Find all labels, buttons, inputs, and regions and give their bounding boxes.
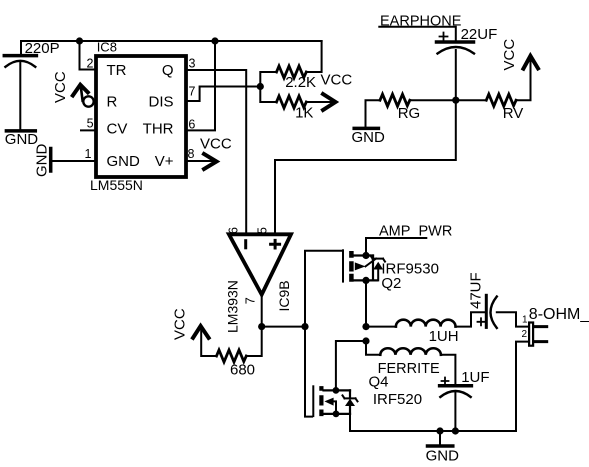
wire node down to FERRITE [366,341,380,355]
svg-text:1K: 1K [295,105,313,122]
connector J1 8-OHM speaker [521,306,589,346]
resistor R2 1K [277,96,314,122]
svg-text:220P: 220P [25,40,60,57]
pin 2 TR label [87,57,127,80]
net label EARPHONE [379,14,461,42]
node junction dot on rail (cap tap) [76,37,83,44]
node junction dot Q4 drain stub [333,387,340,394]
wire earphone node down and to comparator plus input [275,100,456,233]
svg-text:Q: Q [162,62,174,79]
resistor R3 680 [217,350,256,378]
svg-text:VCC: VCC [52,71,69,103]
wire rail down to THR pin 6 [187,41,215,130]
svg-text:CV: CV [107,121,128,138]
svg-text:5: 5 [87,117,94,131]
svg-text:AMP_PWR: AMP_PWR [379,224,452,240]
pin 1 GND label [52,147,140,170]
wire node to Q4 drain [336,341,366,390]
wire DIS pin7 to resistor junction [187,87,260,102]
svg-text:3: 3 [189,57,196,71]
svg-text:2.2K: 2.2K [285,74,316,91]
svg-text:7: 7 [189,85,196,99]
svg-text:VCC: VCC [172,308,189,340]
svg-text:7: 7 [244,297,258,304]
node junction dot 1UF tap [452,427,459,434]
op-amp U2 LM393N IC9B [224,227,292,333]
wire node to RV [456,99,487,101]
svg-text:6: 6 [188,117,195,131]
svg-text:VCC: VCC [321,72,353,89]
node junction dot GND tap [436,427,443,434]
sideways ground at pin 1 [34,144,51,178]
svg-text:LM393N: LM393N [224,280,240,333]
pin 8 V+ label [155,147,195,170]
svg-text:Q2: Q2 [381,275,401,292]
svg-text:1UF: 1UF [461,369,489,386]
wire Q2 source down to inductor node [365,280,367,326]
svg-text:6: 6 [227,227,241,234]
svg-text:GND: GND [34,144,51,178]
svg-text:2: 2 [521,329,527,340]
wire comparator output down [261,295,263,327]
svg-text:THR: THR [143,121,174,138]
svg-text:8: 8 [188,147,195,161]
wire to 1UH [366,326,396,328]
svg-text:47UF: 47UF [468,272,485,309]
svg-text:IRF520: IRF520 [373,391,422,408]
resistor RV [486,94,523,122]
node junction dot DIS node [257,83,264,90]
svg-text:GND: GND [107,153,141,170]
svg-text:1: 1 [85,147,92,161]
wire RG left to GND corner [366,100,381,127]
wire RG to node [410,99,456,101]
svg-text:680: 680 [230,361,255,378]
VCC arrow at pin 8 [187,136,232,170]
svg-text:RG: RG [398,105,421,122]
wire 2.2K right end up to rail [306,41,321,72]
VCC arrow to R bubble [52,71,88,103]
svg-text:2: 2 [87,57,94,71]
wire top rail from 220P to 2.2K corner [21,41,322,55]
node junction dot Q4 body-source [333,411,340,418]
svg-text:IC8: IC8 [97,40,117,55]
capacitor C2 22UF [437,26,498,100]
wire 680 right end up to output node [246,327,262,356]
ground bottom [426,431,460,465]
node junction dot output node [258,323,265,330]
svg-text:5: 5 [255,227,269,234]
wire FERRITE to 1UF [441,355,456,385]
capacitor C3 47UF [468,272,497,328]
node junction dot gate tee [301,323,308,330]
node junction dot 1UH tap [362,323,369,330]
VCC arrow right at 1K [306,72,352,111]
wire junction to resistor ends [260,72,276,102]
pin 3 Q label [162,57,196,80]
svg-text:LM555N: LM555N [90,177,143,193]
capacitor C1 220P [4,40,59,129]
ground below RG [352,128,386,146]
transistor Q4 IRF520 [313,374,422,417]
node junction dot Q2 drain [362,252,369,259]
VCC arrow up at 680 [172,308,217,356]
node junction dot Q2 source [362,277,369,284]
wire rail to pin 2 [80,41,97,70]
wire 1UH to 47UF [456,312,487,326]
svg-text:IC9B: IC9B [276,280,292,311]
ground below 220P [5,131,39,148]
pin 7 DIS label [148,85,195,111]
wire gate tee down to Q4 gate [305,327,312,417]
svg-text:R: R [107,94,118,111]
op-amp U1 IC8 LM555N body [90,40,186,193]
svg-text:22UF: 22UF [461,26,498,43]
svg-text:GND: GND [426,448,460,465]
svg-text:RV: RV [503,105,524,122]
transistor Q2 IRF9530 [343,250,439,291]
pin 6 THR label [143,117,196,137]
node junction dot earphone node [452,97,459,104]
inductor L1 1UH [396,320,459,346]
inductor L2 FERRITE [378,348,441,377]
net label AMP_PWR wire [366,224,452,256]
wire Q pin3 to comparator minus input [187,70,246,234]
wire Q4 source to bottom rail and to connector pin 2 [350,342,528,431]
node junction dot Q4 drain tap [362,337,369,344]
pin R label with bubble [83,94,117,111]
wire 47UF to connector pin 1 [497,312,529,326]
capacitor C4 1UF [440,369,490,431]
svg-text:V+: V+ [155,153,174,170]
svg-text:1UH: 1UH [429,328,459,345]
svg-text:VCC: VCC [501,39,518,71]
svg-text:1: 1 [522,315,528,326]
node junction dot on rail (THR tap) [211,37,218,44]
resistor R1 2.2K [277,66,317,91]
svg-text:TR: TR [107,62,127,79]
resistor RG [380,94,420,122]
VCC arrow up at RV [501,39,538,101]
svg-text:Q4: Q4 [369,374,389,391]
svg-text:DIS: DIS [148,94,173,111]
pin 5 CV label [81,117,127,138]
wire output node to gate tee [262,326,305,328]
svg-text:GND: GND [352,129,386,146]
svg-text:VCC: VCC [200,136,232,153]
svg-text:8-OHM_SP: 8-OHM_SP [529,306,589,323]
wire gate tee up to Q2 gate [305,251,342,327]
